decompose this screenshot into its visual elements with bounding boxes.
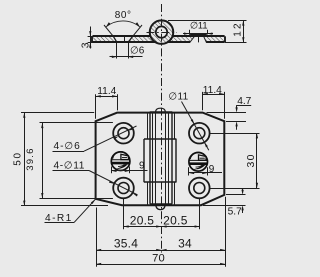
dim 35.4/34: line arrows texts [96, 250, 225, 252]
countersink (from below) right plate [190, 37, 194, 43]
svg-text:∅11: ∅11 [190, 20, 208, 30]
dim 5.7 bottom right: extension lines [226, 194, 246, 196]
dim 30: line arrows text [256, 133, 258, 188]
knuckle narrow segments [150, 111, 172, 113]
svg-text:11.4: 11.4 [203, 85, 222, 96]
phi11 dimple extension lines [189, 30, 191, 34]
dim 11.4 right: line arrows text [203, 94, 225, 96]
phi11 dimple dimension line and arrows [183, 33, 213, 35]
dim 11.4 left: line arrows text [96, 96, 118, 98]
phi6 hole extension lines [116, 43, 118, 59]
svg-text:20.5: 20.5 [130, 214, 155, 228]
dim 4.7 top right: extension lines [207, 112, 247, 114]
dim 9 right: extension lines [188, 167, 190, 175]
svg-text:34: 34 [178, 236, 192, 250]
svg-text:4.7: 4.7 [237, 96, 251, 107]
dim 30 right: extension lines [210, 133, 259, 135]
svg-text:70: 70 [152, 252, 165, 264]
svg-text:9: 9 [209, 164, 215, 175]
svg-text:20.5: 20.5 [163, 214, 188, 228]
svg-text:11.4: 11.4 [97, 86, 116, 97]
dimple dome on right plate [189, 35, 208, 37]
dim 5.7: line arrows text [242, 188, 244, 192]
12 dimension line and arrows [243, 20, 245, 42]
svg-text:4-R1: 4-R1 [45, 213, 73, 224]
pin edges [155, 112, 157, 204]
svg-text:39.6: 39.6 [25, 147, 36, 170]
svg-text:9: 9 [139, 161, 145, 172]
dim 9 left: line arrows text [111, 170, 147, 172]
dim 9 left: extension lines [111, 167, 113, 174]
dim 50 left: extension lines [21, 112, 94, 114]
dim 39.6: line arrows text [42, 123, 44, 198]
svg-text:80°: 80° [115, 10, 132, 21]
screw head left (slotted) [111, 152, 130, 171]
knuckle middle wide segment [143, 139, 145, 182]
dim 35.4 + 34: extension lines [96, 208, 98, 267]
leader phi11 top-right hole [182, 102, 209, 151]
svg-text:35.4: 35.4 [114, 236, 138, 250]
dim 20.5 pair: line arrows texts [124, 226, 200, 228]
knuckle barrel circle (top view) [150, 20, 174, 44]
svg-text:30: 30 [246, 153, 257, 167]
svg-text:4-∅11: 4-∅11 [54, 160, 86, 171]
pin top dome [156, 108, 166, 112]
leaf-knuckle gap lines [147, 113, 149, 139]
svg-text:50: 50 [12, 151, 23, 166]
hole top-right: countersink phi11 outer + phi6 inner [189, 123, 210, 144]
svg-text:5.7: 5.7 [228, 207, 242, 218]
leader 4-R1 bottom-left corner [45, 222, 75, 224]
svg-text:12: 12 [232, 21, 243, 37]
vertical centerline through knuckle (both views) [161, 4, 163, 253]
svg-text:3: 3 [81, 42, 92, 48]
svg-text:∅6: ∅6 [130, 46, 145, 57]
dim 70: line arrows text [96, 264, 225, 266]
hole bottom-left: countersink phi11 outer + phi6 inner [113, 178, 134, 199]
countersink cone lines left plate [113, 36, 117, 42]
80 degree dimension arc [106, 21, 140, 27]
phi6 dimension line and arrows [110, 56, 143, 58]
svg-text:∅11: ∅11 [168, 92, 188, 103]
12 dimension extension lines [168, 20, 247, 22]
countersink edge extension lines (80 deg) [104, 25, 113, 36]
screw head right (slotted) [189, 152, 208, 171]
knuckle shading lines [152, 112, 154, 204]
thickness 3 dimension line [90, 27, 92, 49]
svg-text:4-∅6: 4-∅6 [54, 141, 81, 152]
dim 9 right: line arrows text [189, 172, 222, 174]
dim 11.4 right: extension lines [202, 92, 204, 110]
dim 39.6 left: extension lines [40, 122, 113, 124]
hole bottom-right: countersink phi11 outer + phi6 inner [189, 178, 210, 199]
leader 4-phi6 top-left hole [53, 151, 85, 153]
knuckle division lines [144, 138, 176, 140]
horizontal centerline top view circle [147, 32, 177, 34]
pin bottom dome [156, 204, 166, 210]
countersink center line left plate [124, 37, 126, 43]
dim 20.5 left + 20.5 right: extension lines [123, 199, 125, 229]
dim 4.7: line arrows text [237, 105, 252, 107]
leader 4-phi11 bottom-left hole [53, 170, 90, 172]
right leaf plate (top view section) [167, 36, 194, 42]
dim 11.4 left: extension lines [95, 94, 97, 119]
hole top-left: countersink phi11 outer + phi6 inner [113, 123, 134, 144]
left leaf plate (top view section) [93, 36, 118, 42]
hinge body outline (front view) [96, 113, 225, 206]
dim 50: line arrows text [24, 113, 26, 206]
